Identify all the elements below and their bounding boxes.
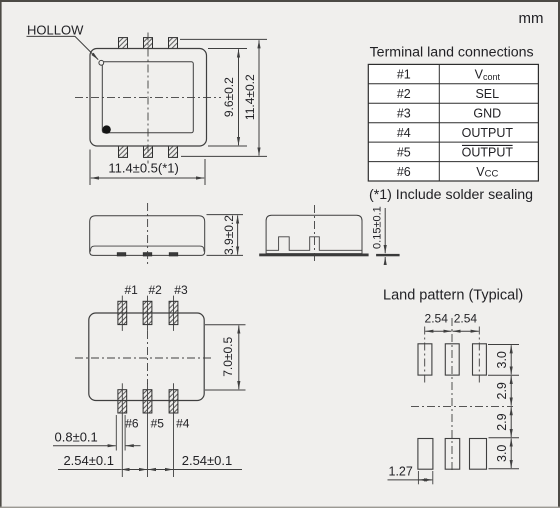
svg-text:#5: #5 [397,145,411,159]
pad6 right edge extension [124,415,126,451]
dim 2.9 upper [510,376,512,406]
svg-text:11.4±0.5(*1): 11.4±0.5(*1) [108,161,179,176]
pad 3 centerline [173,296,175,331]
dim 0.8 right arrow [126,445,141,447]
vertical centerline (top view) [147,33,149,164]
dim line 7.0 [238,326,240,390]
svg-text:#1: #1 [125,283,139,297]
dim 3.0 top [510,345,512,374]
side pad 1 [117,253,126,256]
row divider 4 [368,141,538,143]
svg-text:3.9±0.2: 3.9±0.2 [222,215,236,255]
svg-text:GND: GND [473,107,501,121]
dim 9.6 bottom extension [208,145,247,147]
svg-text:#4: #4 [397,126,411,140]
dim 9.6 top extension [208,48,247,50]
end view centerline [314,205,316,264]
pad 4 centerline extended [173,383,175,477]
pad 6 centerline extended [121,383,123,477]
svg-text:#1: #1 [397,68,411,82]
dim line 3.9 [237,215,239,254]
dim 1.27 leader right arrow [388,479,433,481]
ext bottom pad bottom (land) [489,468,520,470]
page frame top [0,0,560,2]
svg-text:#3: #3 [174,283,188,297]
dim 3.9 top extension [207,214,244,216]
dim 0.8 leader with arrow [53,445,116,447]
svg-text:2.54: 2.54 [425,312,449,326]
svg-text:#5: #5 [151,417,165,431]
svg-text:0.8±0.1: 0.8±0.1 [55,430,98,445]
dim 0.15 lower arrow [384,257,386,265]
svg-text:#2: #2 [149,283,163,297]
dim line width [91,177,204,179]
end body outline [266,215,362,253]
bottom metallization strip [259,254,368,257]
pad 5 bottom (top view) [144,146,153,158]
central vertical centerline (bottom view) [147,331,149,384]
horizontal centerline (bottom view) [75,357,213,359]
svg-text:#2: #2 [397,87,411,101]
dim 7.0 bottom extension [205,389,246,391]
dim width right extension [204,159,206,185]
package outline (top view) [90,49,207,147]
land centerline middle [451,318,453,472]
dim line 9.6 [238,49,240,145]
svg-text:3.0: 3.0 [495,351,509,368]
horizontal centerline (top view) [75,97,221,99]
svg-text:9.6±0.2: 9.6±0.2 [222,77,236,117]
svg-text:2.9: 2.9 [495,413,509,430]
dim line 2.54 left (land) [425,330,451,332]
pad 6 bottom (top view) [119,146,128,158]
ext bottom pad top (land) [489,437,520,439]
land centerline right [478,327,480,384]
page frame left [0,0,2,508]
pad 1 top (top view) [119,38,128,50]
svg-text:2.54±0.1: 2.54±0.1 [63,453,114,468]
svg-text:3.0: 3.0 [495,445,509,462]
pad 2 (bottom view) [143,301,152,324]
svg-text:#3: #3 [397,107,411,121]
svg-text:1.27: 1.27 [389,464,413,478]
dim 2.9 lower [510,407,512,437]
land pad top middle [445,344,459,375]
dim 7.0 top extension [205,324,246,326]
horizontal centerline (land) [411,405,513,407]
svg-text:2.9: 2.9 [495,382,509,399]
dim 0.15 upper arrow [384,208,386,253]
index black dot [102,125,110,133]
svg-text:0.15±0.1: 0.15±0.1 [372,206,384,249]
hollow mark circle [99,60,104,65]
row divider 2 [368,102,538,104]
svg-text:Terminal land connections: Terminal land connections [370,45,534,61]
pad 3 (bottom view) [169,301,178,324]
ext top pad top (land) [488,344,519,346]
svg-text:2.54: 2.54 [454,312,478,326]
dim line 2.54 right [148,469,173,471]
dim line 2.54 left [121,469,147,471]
side body outline [90,216,205,256]
dim 0.15 extension strip [376,254,400,256]
svg-text:SEL: SEL [475,87,499,101]
dim 2.54 right leader [174,469,243,471]
dim 11.4 top extension [180,38,267,40]
side pad 2 [143,253,152,256]
pad6 left edge extension [115,415,117,451]
dim 3.9 bottom extension [207,254,244,256]
svg-text:(*1) Include solder sealing: (*1) Include solder sealing [369,187,533,203]
land pad bottom left [418,439,433,470]
ext 1.27 left [417,471,419,484]
castellation profile [267,237,362,251]
page frame right [558,0,560,508]
row divider 3 [368,122,538,124]
dim line 11.4 [258,40,260,155]
page frame bottom [0,507,560,508]
svg-text:7.0±0.5: 7.0±0.5 [221,337,235,377]
pad 2 top (top view) [144,38,153,50]
pad 2 centerline [147,296,149,331]
pad 6 (bottom view) [118,390,127,413]
land pad bottom right [470,439,487,470]
row divider 1 [368,83,538,85]
pad 4 (bottom view) [169,390,178,413]
side view centerline [147,203,149,267]
lid outline (top view) [102,62,193,133]
land centerline left [424,327,426,384]
column divider [438,64,440,181]
dim 2.54 left leader [58,469,121,471]
table body [368,64,538,181]
svg-text:#6: #6 [125,417,139,431]
svg-text:2.54±0.1: 2.54±0.1 [182,453,233,468]
pad 3 top (top view) [169,38,178,50]
svg-text:HOLLOW: HOLLOW [27,23,84,38]
svg-text:mm: mm [519,10,544,27]
lid seam line [91,246,204,251]
svg-text:OUTPUT: OUTPUT [462,126,514,140]
overline for inverted OUTPUT [462,144,513,146]
land pad top left [418,344,432,375]
pad 1 (bottom view) [118,301,127,324]
ext top pad bottom (land) [488,374,519,376]
svg-text:#6: #6 [397,165,411,179]
dim width left extension [89,150,91,186]
pad 5 (bottom view) [143,390,152,413]
package outline (bottom view) [89,313,204,401]
land pad bottom middle [445,439,460,470]
dim 3.0 bottom [510,439,512,469]
svg-text:#4: #4 [176,417,190,431]
pad 4 bottom (top view) [169,146,178,158]
pad 1 centerline [121,296,123,331]
svg-text:11.4±0.2: 11.4±0.2 [243,74,257,120]
pad 5 centerline extended [147,383,149,477]
HOLLOW leader line [27,36,99,59]
land pad top right [473,344,487,375]
dim 11.4 bottom extension [181,155,267,157]
row divider 5 [368,161,538,163]
side pad 3 [169,253,178,256]
ext 1.27 right [432,471,434,484]
svg-text:OUTPUT: OUTPUT [462,145,514,159]
dim line 2.54 right (land) [453,330,479,332]
svg-text:Land pattern (Typical): Land pattern (Typical) [383,288,523,304]
dim 1.27 left arrow [419,479,431,481]
